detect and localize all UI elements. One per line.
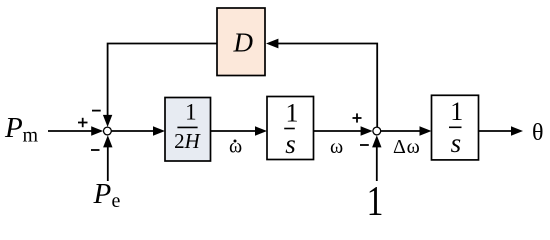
label omega-dot [229,136,242,158]
wire S1 to block 1/2H [111,130,156,132]
wire S2 takeoff up to D block [276,44,377,128]
wire 1/2H to integrator 1/s (first) [211,130,259,132]
wire D output to S1 (left then down) [108,44,217,120]
svg-text:2H: 2H [174,129,202,153]
wire Pe input (vertical) [107,144,109,181]
block 1/2H [165,98,211,162]
wire S2 to integrator 1/s (second) [381,130,423,132]
svg-text:1: 1 [367,179,384,220]
svg-text:θ: θ [532,120,544,146]
block D [217,8,265,76]
svg-text:ω: ω [330,136,343,158]
label Pm [4,112,39,147]
plus sign at summing junction S2 [353,113,362,122]
svg-text:Δω: Δω [393,136,421,158]
block integrator 1/s (second) [432,95,479,160]
wire output to theta [479,130,515,132]
minus sign below-left of summing junction S2 [360,144,369,146]
svg-text:s: s [451,128,462,158]
svg-text:1: 1 [450,97,463,126]
svg-text:P: P [4,112,23,144]
wire constant 1 input (vertical) [376,144,378,181]
minus sign below summing junction S1 [91,149,100,151]
svg-text:1: 1 [185,100,197,125]
svg-text:e: e [112,190,121,212]
summing junction S1 [104,127,112,135]
summing junction S2 [373,127,381,135]
svg-text:P: P [93,178,112,210]
svg-text:1: 1 [286,99,299,128]
block integrator 1/s (first) [267,97,314,160]
svg-text:ω: ω [229,136,242,158]
minus sign above summing junction S1 [92,110,101,112]
svg-text:s: s [285,129,296,159]
plus sign at summing junction S1 [78,118,88,127]
svg-text:m: m [23,125,39,147]
label Pe [93,178,121,212]
wire 1/s to summing junction S2 [314,130,364,132]
wire Pm input [48,130,95,132]
svg-text:D: D [233,28,254,58]
